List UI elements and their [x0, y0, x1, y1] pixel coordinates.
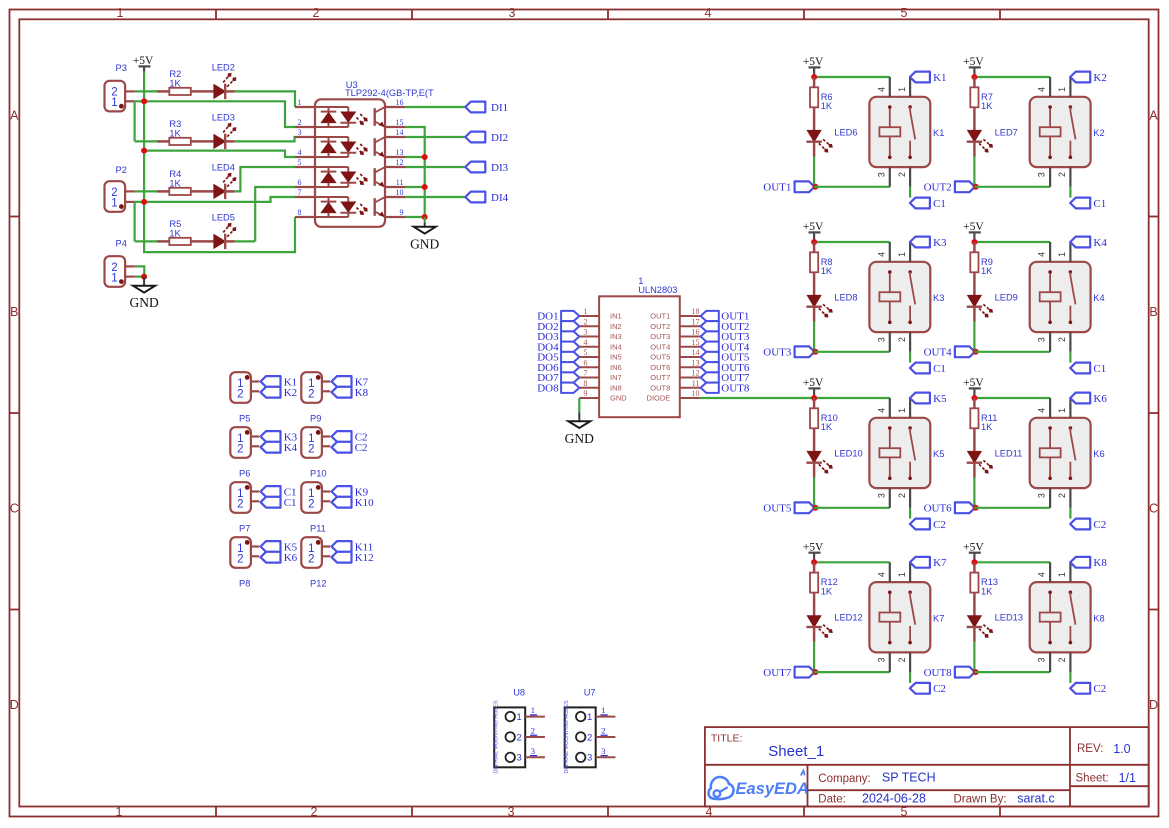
svg-text:1.0: 1.0 [1113, 742, 1130, 756]
net flag K6 (relay pin1) [1070, 393, 1107, 405]
net flag OUT8 [924, 667, 975, 679]
svg-text:1K: 1K [169, 228, 181, 238]
net flag K3 (relay pin1) [910, 237, 947, 249]
op-amp U3 TLP292-4 optocoupler [315, 80, 434, 227]
svg-text:2: 2 [897, 337, 907, 342]
net flag C1 (relay pin2) [910, 363, 946, 375]
svg-text:Company:: Company: [818, 773, 870, 785]
wire +5V to relay K8 coil [974, 561, 1050, 563]
svg-text:2: 2 [531, 726, 535, 736]
net flag K5 (P8 pin1) [261, 541, 298, 553]
svg-text:K1: K1 [933, 72, 946, 84]
svg-text:+5V: +5V [963, 56, 984, 68]
svg-text:OUT7: OUT7 [763, 667, 792, 679]
frame column numbers bottom [116, 805, 908, 819]
power +5V (K5 cell) [803, 377, 824, 398]
svg-text:1K: 1K [169, 178, 181, 188]
wire ULN DIODE pin10 to relay row3 +5V [700, 397, 814, 399]
svg-text:4: 4 [876, 572, 886, 577]
svg-text:OUT6: OUT6 [924, 503, 953, 515]
svg-text:16: 16 [396, 98, 404, 107]
svg-text:15: 15 [396, 118, 404, 127]
svg-text:15: 15 [692, 338, 700, 347]
svg-text:Drawn By:: Drawn By: [954, 793, 1007, 805]
svg-text:DI2: DI2 [491, 132, 508, 144]
svg-text:P4: P4 [116, 239, 127, 249]
net flags DO1-DO8 [537, 311, 579, 395]
svg-text:3: 3 [1037, 493, 1047, 498]
svg-text:OUT6: OUT6 [650, 363, 670, 372]
svg-text:14: 14 [396, 128, 404, 137]
svg-text:K4: K4 [1093, 237, 1107, 249]
svg-text:DI1: DI1 [491, 102, 508, 114]
LED LED12 [806, 613, 862, 642]
svg-text:K2: K2 [1093, 72, 1106, 84]
svg-text:LED7: LED7 [995, 127, 1018, 137]
wire LED10 to OUT5 [813, 478, 815, 508]
mounting holes U8 DIN rail [494, 687, 545, 773]
LED LED10 [806, 448, 862, 477]
svg-text:18: 18 [692, 307, 700, 316]
svg-text:TLP292-4(GB-TP,E(T: TLP292-4(GB-TP,E(T [345, 88, 434, 98]
wire relay K8 pin2 to C2 [1069, 672, 1071, 683]
svg-text:C2: C2 [933, 519, 946, 531]
svg-text:K2: K2 [284, 387, 297, 399]
svg-text:2: 2 [308, 443, 314, 455]
wire P4 pin2 to ground junction [135, 266, 145, 276]
svg-text:1: 1 [897, 408, 907, 413]
connector P9 [301, 372, 330, 424]
svg-text:D: D [10, 698, 19, 712]
svg-text:+5V: +5V [963, 221, 984, 233]
svg-text:17: 17 [692, 317, 700, 326]
svg-text:2: 2 [1057, 493, 1067, 498]
wire U3 pin13 to bus [405, 156, 425, 158]
svg-text:ULN2803: ULN2803 [638, 285, 677, 295]
svg-text:OUT8: OUT8 [721, 382, 750, 394]
svg-text:1: 1 [1057, 252, 1067, 257]
net flag OUT4 [924, 346, 975, 358]
wire P2 pin1 to U3 pin7 [135, 197, 295, 202]
net flag C2 (P10 pin2) [332, 442, 368, 454]
svg-text:U8: U8 [513, 687, 525, 697]
ground GND (ULN2803) [565, 412, 594, 446]
resistor R5 [157, 219, 214, 245]
svg-text:1: 1 [531, 705, 535, 715]
svg-text:K3: K3 [933, 237, 947, 249]
net flag C2 (P10 pin1) [332, 431, 368, 443]
net flag OUT5 [763, 502, 814, 514]
svg-text:1: 1 [587, 712, 592, 723]
wire R5 row [135, 240, 157, 242]
resistor R2 [157, 69, 214, 95]
junction OUT6 [973, 505, 979, 511]
svg-text:U7: U7 [584, 687, 596, 697]
svg-text:LED11: LED11 [995, 448, 1023, 458]
wire OUT6 to relay K6 pin3 [974, 507, 1050, 509]
svg-text:10: 10 [396, 188, 404, 197]
svg-text:2: 2 [237, 388, 243, 400]
svg-text:4: 4 [876, 408, 886, 413]
svg-text:K8: K8 [1093, 557, 1107, 569]
net flag C1 (relay pin2) [1070, 198, 1106, 210]
svg-text:DIODE: DIODE [647, 394, 671, 403]
wire LED7 to OUT2 [973, 157, 975, 187]
svg-text:+5V: +5V [803, 221, 824, 233]
svg-text:4: 4 [1037, 408, 1047, 413]
svg-text:1: 1 [111, 97, 117, 109]
junction U3 pin13 [422, 154, 428, 160]
svg-text:2: 2 [308, 388, 314, 400]
net flag OUT6 [924, 502, 975, 514]
svg-text:1: 1 [601, 705, 605, 715]
relay K3 [869, 242, 944, 352]
svg-text:GND: GND [410, 237, 439, 252]
svg-text:1K: 1K [981, 101, 993, 111]
svg-text:LED5: LED5 [212, 213, 235, 223]
resistor R12 [810, 562, 838, 615]
svg-text:C: C [1149, 501, 1158, 515]
svg-text:LED13: LED13 [995, 613, 1023, 623]
svg-text:K8: K8 [355, 387, 369, 399]
svg-text:3: 3 [1037, 337, 1047, 342]
svg-text:OUT2: OUT2 [650, 322, 670, 331]
net flag K3 (P6 pin1) [261, 431, 298, 443]
power +5V (K6 cell) [963, 377, 984, 398]
svg-text:DIN RAIL MOUNTING HOLES: DIN RAIL MOUNTING HOLES [494, 700, 500, 774]
svg-text:1: 1 [517, 712, 522, 723]
svg-text:GND: GND [129, 295, 158, 310]
svg-text:1: 1 [584, 307, 588, 316]
svg-text:IN8: IN8 [610, 383, 622, 392]
connector P11 [301, 482, 330, 534]
wire LED13 to OUT8 [973, 642, 975, 672]
svg-text:Sheet:: Sheet: [1076, 773, 1109, 785]
relay K5 [869, 398, 944, 508]
svg-text:10: 10 [692, 389, 700, 398]
svg-text:3: 3 [509, 6, 516, 20]
svg-text:OUT5: OUT5 [650, 353, 670, 362]
svg-text:IN2: IN2 [610, 322, 622, 331]
wire LED4 to U3 pin5 [235, 167, 295, 191]
LED LED4 [212, 163, 237, 200]
power +5V (opto block) [133, 55, 154, 72]
net flag C2 (relay pin2) [1070, 683, 1106, 695]
relay K1 [869, 77, 944, 187]
svg-text:C1: C1 [284, 497, 297, 509]
frame row ticks left [10, 217, 20, 610]
net flag K12 (P12 pin2) [332, 552, 374, 564]
svg-text:3: 3 [531, 746, 535, 756]
svg-text:5: 5 [298, 158, 302, 167]
svg-text:IN7: IN7 [610, 373, 622, 382]
wire relay K1 pin2 to C1 [909, 187, 911, 198]
wire +5V to relay K5 coil [814, 397, 890, 399]
svg-text:1: 1 [1057, 572, 1067, 577]
svg-text:4: 4 [584, 338, 588, 347]
svg-text:2: 2 [1057, 172, 1067, 177]
svg-text:3: 3 [584, 328, 588, 337]
frame row letters right [1149, 108, 1158, 712]
frame row ticks right [1149, 217, 1159, 610]
net flag K10 (P11 pin2) [332, 497, 375, 509]
svg-text:LED12: LED12 [834, 613, 862, 623]
svg-text:1K: 1K [821, 586, 833, 596]
svg-text:+5V: +5V [803, 541, 824, 553]
svg-text:DI4: DI4 [491, 192, 509, 204]
svg-text:LED6: LED6 [834, 127, 857, 137]
svg-text:1: 1 [897, 87, 907, 92]
svg-text:+5V: +5V [803, 377, 824, 389]
mounting holes U7 DIN rail [564, 687, 615, 773]
svg-text:+5V: +5V [803, 56, 824, 68]
net flag DI4 [465, 192, 508, 204]
net flag C1 (P7 pin1) [261, 486, 297, 498]
svg-text:LED2: LED2 [212, 63, 235, 73]
connector P2 [105, 165, 135, 212]
frame row letters left [10, 108, 19, 712]
svg-text:3: 3 [1037, 657, 1047, 662]
svg-text:16: 16 [692, 328, 700, 337]
wire U3 pin15 to bus [405, 127, 425, 217]
wire +5V to relay K3 coil [814, 241, 890, 243]
relay K6 [1030, 398, 1105, 508]
svg-text:13: 13 [396, 148, 404, 157]
ground GND (U3) [410, 217, 439, 252]
svg-text:OUT5: OUT5 [763, 503, 792, 515]
svg-text:3: 3 [298, 128, 302, 137]
svg-text:2: 2 [517, 732, 522, 743]
svg-text:2: 2 [897, 657, 907, 662]
svg-text:7: 7 [584, 369, 588, 378]
ground GND (P4) [129, 277, 158, 310]
relay K8 [1030, 562, 1105, 672]
svg-text:5: 5 [901, 6, 908, 20]
wire LED8 to OUT3 [813, 322, 815, 352]
title block texts [711, 732, 1136, 805]
svg-text:OUT8: OUT8 [924, 667, 953, 679]
wire P4 pin1 to ground [135, 276, 145, 278]
junction +5V R11 [971, 395, 977, 401]
wire +5V to relay K2 coil [974, 76, 1050, 78]
wire U3 pin6 to LED5 column [255, 187, 295, 241]
svg-text:K4: K4 [1093, 293, 1104, 303]
svg-text:SP TECH: SP TECH [882, 771, 936, 785]
svg-text:2: 2 [298, 118, 302, 127]
wire +5V to relay K6 coil [974, 397, 1050, 399]
svg-text:4: 4 [1037, 87, 1047, 92]
net flag K7 (P9 pin1) [332, 376, 369, 388]
net flag DI3 [465, 162, 508, 174]
LED LED9 [967, 292, 1018, 321]
svg-text:2: 2 [601, 726, 605, 736]
svg-text:DO8: DO8 [537, 382, 559, 394]
wire P2 pin1 branch down to R5 [134, 202, 136, 242]
svg-text:C1: C1 [933, 198, 946, 210]
junction U3 pin11 [422, 184, 428, 190]
connector P6 [230, 427, 259, 479]
svg-text:sarat.c: sarat.c [1017, 791, 1055, 805]
junction OUT8 [973, 669, 979, 675]
svg-text:OUT1: OUT1 [763, 182, 791, 194]
svg-text:2: 2 [1057, 657, 1067, 662]
wire +5V vertical bus [144, 72, 295, 253]
junction +5V / P3 pin1 [141, 98, 147, 104]
svg-text:OUT3: OUT3 [650, 332, 670, 341]
wire P3 pin1 branch down to R3 [134, 101, 136, 141]
wire relay K6 pin2 to C2 [1069, 508, 1071, 519]
svg-text:8: 8 [298, 208, 302, 217]
svg-text:2: 2 [237, 443, 243, 455]
power +5V (K7 cell) [803, 541, 824, 562]
svg-text:A: A [1149, 108, 1158, 122]
wire +5V to relay K4 coil [974, 241, 1050, 243]
svg-text:LED9: LED9 [995, 292, 1018, 302]
frame column ticks bottom [216, 807, 1000, 817]
wire OUT8 to relay K8 pin3 [974, 671, 1050, 673]
svg-text:OUT7: OUT7 [650, 373, 670, 382]
svg-text:P7: P7 [239, 524, 250, 534]
junction +5V / P2 pin1 [141, 199, 147, 205]
wire R3 row [135, 140, 157, 142]
svg-text:1K: 1K [169, 128, 181, 138]
svg-text:1: 1 [897, 572, 907, 577]
svg-text:LED10: LED10 [834, 448, 862, 458]
wire LED2 to U3 pin1 [235, 91, 295, 107]
svg-text:GND: GND [610, 394, 627, 403]
svg-text:P8: P8 [239, 579, 250, 589]
wire U3 pin12 to DI3 [405, 166, 465, 168]
net flag K6 (P8 pin2) [261, 552, 298, 564]
svg-text:C1: C1 [1093, 198, 1106, 210]
net flag OUT1 [763, 181, 814, 193]
svg-text:K3: K3 [933, 293, 944, 303]
net flag K2 (relay pin1) [1070, 72, 1107, 84]
wire relay K5 pin2 to C2 [909, 508, 911, 519]
wire LED12 to OUT7 [813, 642, 815, 672]
svg-text:13: 13 [692, 358, 700, 367]
connector P3 [105, 63, 135, 111]
svg-text:6: 6 [584, 358, 588, 367]
svg-text:2: 2 [897, 172, 907, 177]
LED LED8 [806, 292, 857, 321]
power +5V (K2 cell) [963, 56, 984, 77]
wire LED6 to OUT1 [813, 157, 815, 187]
svg-text:P6: P6 [239, 469, 250, 479]
svg-text:A: A [10, 108, 19, 122]
svg-text:OUT1: OUT1 [650, 312, 670, 321]
junction +5V row pin4 [141, 148, 147, 154]
resistor R3 [157, 119, 214, 145]
power +5V (K3 cell) [803, 221, 824, 242]
net flag C1 (P7 pin2) [261, 497, 297, 509]
LED LED3 [212, 113, 237, 150]
LED LED11 [967, 448, 1023, 477]
junction +5V R13 [971, 559, 977, 565]
svg-text:2: 2 [313, 6, 320, 20]
svg-text:K8: K8 [1093, 613, 1104, 623]
svg-text:2024-06-28: 2024-06-28 [862, 791, 926, 805]
junction OUT2 [973, 184, 979, 190]
svg-text:2: 2 [1057, 337, 1067, 342]
resistor R13 [970, 562, 998, 615]
svg-text:C1: C1 [1093, 363, 1106, 375]
wire OUT4 to relay K4 pin3 [974, 351, 1050, 353]
junction +5V R8 [811, 239, 817, 245]
svg-text:3: 3 [601, 746, 605, 756]
svg-text:14: 14 [692, 348, 700, 357]
net flag K2 (P5 pin2) [261, 387, 298, 399]
svg-text:2: 2 [587, 732, 592, 743]
svg-text:DIN RAIL MOUNTING HOLES: DIN RAIL MOUNTING HOLES [564, 700, 570, 774]
svg-text:C: C [10, 501, 19, 515]
wire relay K7 pin2 to C2 [909, 672, 911, 683]
wire LED5 to pin6 column [235, 240, 256, 242]
svg-text:1: 1 [298, 98, 302, 107]
svg-text:5: 5 [584, 348, 588, 357]
LED LED13 [967, 613, 1023, 642]
net flag K1 (relay pin1) [910, 72, 947, 84]
net flags OUT1-OUT8 (ULN outputs) [701, 311, 750, 395]
svg-text:3: 3 [1037, 172, 1047, 177]
connector P5 [230, 372, 259, 424]
svg-text:OUT4: OUT4 [650, 342, 670, 351]
svg-text:K6: K6 [1093, 393, 1107, 405]
resistor R9 [970, 242, 993, 295]
svg-text:4: 4 [1037, 572, 1047, 577]
svg-text:K5: K5 [933, 449, 944, 459]
svg-text:EasyEDA: EasyEDA [736, 780, 809, 798]
net flag C1 (relay pin2) [1070, 363, 1106, 375]
svg-text:9: 9 [400, 208, 404, 217]
wire +5V to relay K7 coil [814, 561, 890, 563]
junction OUT5 [812, 505, 818, 511]
net flag OUT7 [763, 667, 814, 679]
wire U3 pin10 to DI4 [405, 196, 465, 198]
svg-text:+5V: +5V [963, 541, 984, 553]
svg-text:IN3: IN3 [610, 332, 622, 341]
svg-text:K2: K2 [1093, 128, 1104, 138]
svg-text:1K: 1K [981, 422, 993, 432]
svg-text:+5V: +5V [133, 55, 154, 67]
net flag K1 (P5 pin1) [261, 376, 298, 388]
svg-text:OUT4: OUT4 [924, 347, 953, 359]
svg-text:1: 1 [1057, 87, 1067, 92]
resistor R6 [810, 77, 833, 130]
net flag K8 (relay pin1) [1070, 557, 1107, 569]
wire +5V to relay K1 coil [814, 76, 890, 78]
svg-text:OUT2: OUT2 [924, 182, 952, 194]
svg-text:K7: K7 [933, 557, 947, 569]
svg-text:K5: K5 [933, 393, 947, 405]
net flag K4 (relay pin1) [1070, 237, 1107, 249]
relay K2 [1030, 77, 1105, 187]
svg-text:1: 1 [111, 272, 117, 284]
svg-text:REV:: REV: [1077, 743, 1103, 755]
net flag C2 (relay pin2) [910, 683, 946, 695]
svg-text:C2: C2 [1093, 519, 1106, 531]
svg-text:LED8: LED8 [834, 292, 857, 302]
IC U2 ULN2803 [599, 276, 680, 417]
svg-text:B: B [10, 305, 18, 319]
svg-text:4: 4 [876, 87, 886, 92]
svg-text:2: 2 [308, 498, 314, 510]
svg-text:2: 2 [897, 493, 907, 498]
net flag K4 (P6 pin2) [261, 442, 298, 454]
svg-text:7: 7 [298, 188, 302, 197]
svg-text:3: 3 [876, 172, 886, 177]
svg-text:11: 11 [692, 379, 700, 388]
